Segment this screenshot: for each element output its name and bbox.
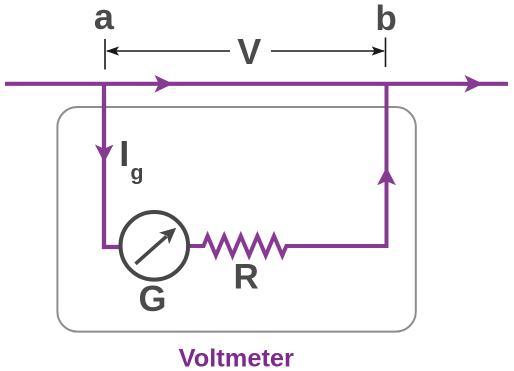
- svg-text:a: a: [94, 0, 115, 37]
- tick at node b: [385, 38, 387, 68]
- svg-text:b: b: [375, 0, 396, 38]
- wire (galvanometer to resistor to right branch) + resistor R zigzag: [188, 85, 387, 256]
- current arrow (up) on right branch: [377, 167, 396, 185]
- dimension arrowhead right: [372, 46, 385, 55]
- svg-text:Voltmeter: Voltmeter: [179, 345, 294, 371]
- dimension line V right segment: [271, 50, 384, 52]
- dimension line V left segment: [107, 50, 230, 52]
- current arrow right on main wire: [465, 75, 484, 93]
- dimension arrowhead left: [106, 46, 119, 55]
- current arrow Ig (down): [95, 145, 114, 163]
- svg-text:G: G: [138, 278, 166, 319]
- wire (left branch a down to galvanometer): [104, 84, 120, 247]
- current arrow left on main wire: [155, 75, 174, 93]
- svg-text:g: g: [130, 160, 143, 184]
- svg-text:I: I: [119, 133, 129, 174]
- wire (main conductor a-b): [5, 82, 508, 86]
- voltmeter box: [57, 107, 415, 332]
- svg-text:V: V: [237, 31, 261, 72]
- svg-text:R: R: [234, 257, 259, 296]
- tick at node a: [104, 39, 106, 70]
- galvanometer G circle: [121, 212, 189, 280]
- galvanometer needle: [136, 236, 167, 263]
